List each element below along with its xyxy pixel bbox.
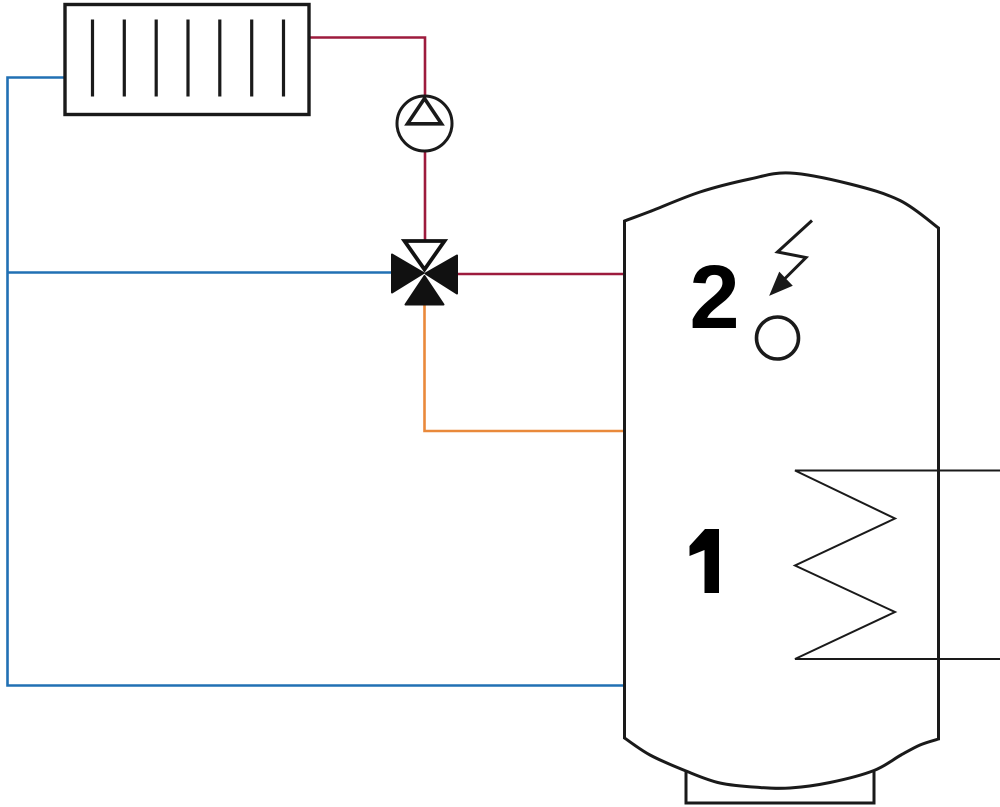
pump P1 <box>397 96 452 151</box>
valve: right filled port triangle <box>426 256 458 294</box>
valve: bottom filled port triangle <box>406 276 444 305</box>
wire orange: valve bottom port to tank <box>425 304 626 431</box>
wire red: radiator supply to pump inlet <box>309 38 425 98</box>
radiator <box>65 5 309 115</box>
svg-text:2: 2 <box>689 248 739 348</box>
wire red: valve right port to tank <box>455 273 625 276</box>
valve: 3-way mixing valve body, top hollow port <box>405 241 445 270</box>
wire blue: branch from left riser to valve left port <box>8 271 393 274</box>
valve: left filled port triangle <box>392 255 424 293</box>
label 1 (lower connection) <box>690 529 720 593</box>
electric heating element symbol: lightning arrow <box>771 221 813 295</box>
wire blue: radiator return, left riser and bottom run to tank <box>8 78 625 686</box>
label 2 (upper connection) <box>689 248 739 348</box>
wire red: pump outlet to valve top port <box>424 151 427 243</box>
tank: storage cylinder body <box>625 173 939 789</box>
heat exchanger coil inside tank <box>795 471 1000 660</box>
tank pedestal <box>686 768 874 803</box>
sensor port circle on tank <box>757 317 799 359</box>
